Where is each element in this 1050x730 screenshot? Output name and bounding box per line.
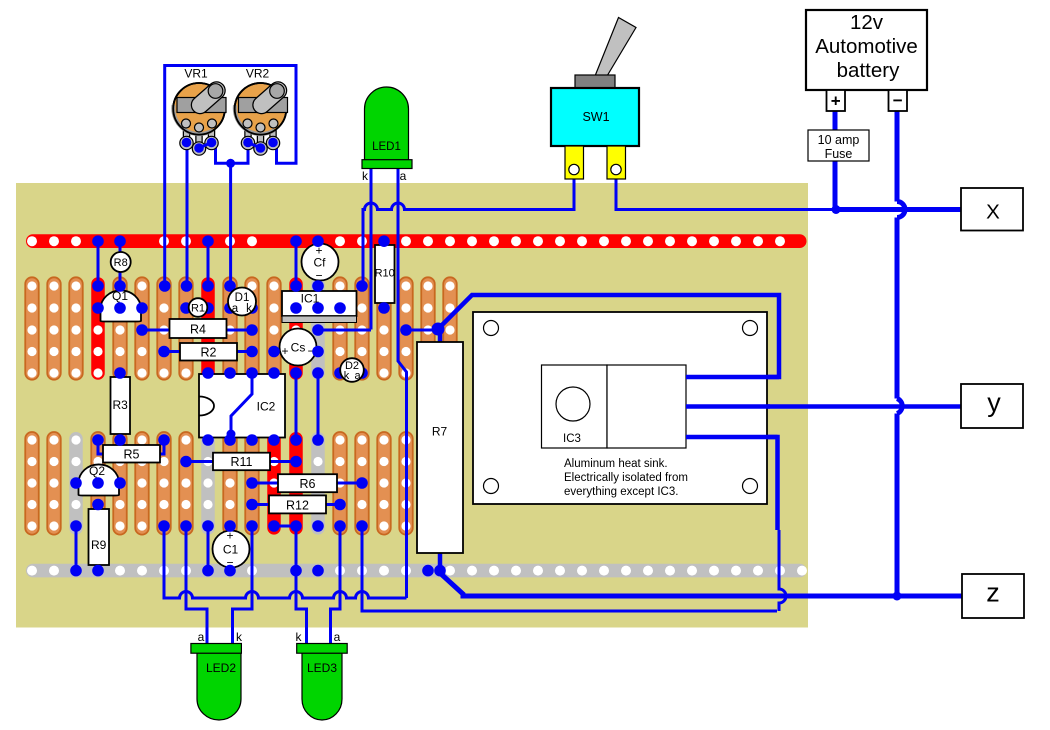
terminal x [961,188,1023,231]
svg-text:LED1: LED1 [372,141,401,153]
wire: node col406 row330 to R7 top junction [406,329,438,332]
LED3 [302,653,342,720]
svg-text:12v: 12v [850,11,884,34]
copper strip col 54 top [47,277,61,379]
svg-text:k: k [246,303,252,315]
hop: minus wire over x wire [897,202,905,218]
diode D2 [340,372,362,375]
copper strip col 296 top [289,277,303,379]
potentiometer VR1 [173,67,226,156]
svg-text:R1: R1 [191,303,205,315]
copper strip col 274 top [267,277,281,379]
bus holes [27,236,807,575]
copper strip col 340 top [333,277,347,379]
svg-text:a: a [354,370,361,382]
wire: LED1 anode leg down to below-board bus [398,168,407,598]
copper strip col 164 top [157,277,171,379]
copper strip col 164 bottom [157,432,171,535]
wire: jumper col 76 row526 to ground bus [75,526,78,571]
transistor Q1 [101,290,142,321]
regulator IC3 [542,365,608,448]
svg-text:Automotive: Automotive [815,35,918,58]
capacitor Cf [302,244,339,281]
resistor R9 [89,509,110,565]
capacitor C1 [213,531,250,568]
wire: R8 link col 120 [119,241,122,286]
svg-text:a: a [232,303,239,315]
resistor R1 body [189,298,208,317]
battery minus terminal [889,90,908,111]
svg-text:R3: R3 [113,398,129,412]
diode D1 body [228,288,256,316]
IC U2 (IC2) [199,374,285,438]
copper strip col 32 top [25,277,39,379]
copper strip col 54 bottom [47,432,61,535]
copper strip col 98 top [91,277,105,379]
svg-text:X: X [986,201,1000,224]
resistor R11 [186,460,213,463]
copper strip col 318 top [311,277,325,379]
junction node minus/z [893,592,902,601]
resistor R4 [142,329,252,332]
svg-text:R8: R8 [114,257,128,269]
heat sink mounting hole top-right [743,321,758,336]
resistor R12 [252,503,269,506]
copper strip col 340 bottom [333,432,347,535]
copper strip col 32 bottom [25,432,39,535]
wire: VR2 wiper tie [248,143,262,149]
wire: jumper col 318 top band to bottom band [317,373,320,440]
svg-text:10 amp: 10 amp [818,133,860,147]
wire: battery plus to fuse [833,111,838,130]
wire: IC3 pin 1 [686,375,779,380]
junction node IC2 internal [227,430,236,439]
potentiometer VR2 [235,67,288,156]
wire: jumper col 296 top band to bottom band [295,373,298,440]
svg-text:R7: R7 [432,425,448,439]
diode D1 [230,307,252,310]
copper strip col 318 bottom [311,432,325,535]
diode D2 body [340,358,364,382]
svg-text:VR2: VR2 [246,67,270,81]
resistor R6 [252,482,278,485]
svg-text:a: a [334,630,341,644]
resistor R10 [375,245,395,303]
copper strip col 384 bottom [377,432,391,535]
resistor R5 [98,440,103,454]
copper strip col 274 bottom [267,432,281,535]
wire: jumper col 230 row526 to ground bus (under C1) [229,526,232,571]
svg-text:SW1: SW1 [582,110,609,124]
svg-text:+: + [831,92,841,111]
svg-text:R9: R9 [91,538,107,552]
wire: LED3 anode from col 340 [331,526,341,645]
fuse [808,130,869,161]
wire: LED2 anode from col 186 [186,526,207,645]
svg-text:R11: R11 [230,455,252,469]
heat sink panel [473,312,767,504]
wire: battery minus down to z [895,111,900,596]
wire: LED2 cathode from col 252 [233,526,253,645]
wire: col 318 row 330 to node by R7 [318,329,371,332]
wire: below-board return bus from col 164 [164,526,407,598]
resistor R7 [417,342,463,553]
svg-text:Q2: Q2 [89,464,105,478]
svg-text:R2: R2 [201,346,217,360]
svg-text:+: + [281,344,288,358]
wire: heatsink loop IC3 pin1 to R7 node [438,295,779,377]
svg-text:z: z [986,578,1000,608]
junction node R7 top [432,323,445,336]
copper strip col 362 bottom [355,432,369,535]
wire: LED1 cathode leg [370,168,373,330]
svg-text:R10: R10 [375,268,395,280]
wire: IC3 pin 2 [686,404,770,409]
copper strip col 76 bottom [69,432,83,535]
wire: IC3 pin3 drop with hop over z wire [779,530,786,611]
svg-text:Aluminum heat sink.: Aluminum heat sink. [564,458,668,470]
wire: VR1 left lug to col 186 [186,145,189,286]
svg-text:Fuse: Fuse [825,147,853,161]
svg-text:k: k [296,630,303,644]
transistor Q2 [79,464,120,495]
svg-text:Electrically isolated from: Electrically isolated from [564,472,688,484]
resistor R3 [111,377,131,434]
svg-text:R12: R12 [286,499,309,513]
wire: fuse to x junction [833,161,838,210]
copper strip col 98 bottom [91,432,105,535]
svg-text:VR1: VR1 [184,67,208,81]
copper strip col 450 top [443,277,457,379]
wire: IC3 pin3 right segment [686,437,778,530]
svg-text:Cs: Cs [291,341,306,355]
copper strip col 406 bottom [399,432,413,535]
capacitor Cs [274,350,318,353]
copper strip col 186 top [179,277,193,379]
svg-text:LED3: LED3 [307,661,337,675]
svg-text:Cf: Cf [314,256,327,270]
copper strip col 208 bottom [201,432,215,535]
wire: col 362 to IC3 pin3 return [362,526,777,611]
resistor R1 [186,307,208,310]
copper strip col 120 top [113,277,127,379]
resistor R2 [164,350,252,353]
svg-text:everything except IC3.: everything except IC3. [564,486,678,498]
svg-text:k: k [362,169,369,183]
svg-text:C1: C1 [223,543,239,557]
heat sink mounting hole bottom-left [484,479,499,494]
wire: row526 link col274-col296 [274,525,296,528]
copper strip col 186 bottom [179,432,193,535]
wire: V+ bus jumper to strip col 208 [207,241,210,286]
battery plus terminal [827,90,846,111]
junction node VR wiper tap [226,159,235,168]
copper strip col 142 top [135,277,149,379]
wire: SW1 right pole to fuse junction [616,171,836,210]
hop: minus wire over y wire [897,399,902,414]
wire: LED3 cathode from ground bus col 296 [296,526,307,645]
wire: R7 top lead [438,329,443,342]
wire: x feed to terminal [836,207,961,212]
copper strip col 252 top [245,277,259,379]
V+ bus strip (red) [26,234,807,248]
copper strip col 76 top [69,277,83,379]
svg-text:IC2: IC2 [257,400,276,414]
battery [806,10,927,90]
SW1 terminal right [607,146,626,179]
junction node fuse/x [832,205,841,214]
svg-text:a: a [198,630,205,644]
svg-text:a: a [400,169,407,183]
heat sink mounting hole top-left [484,321,499,336]
copper strip col 296 bottom [289,432,303,535]
solder joints [70,235,446,576]
ground bus strip (gray) [26,564,807,578]
svg-text:battery: battery [837,59,900,82]
svg-text:y: y [987,388,1001,418]
SW1 terminal left [565,146,584,179]
copper strip col 208 top [201,277,215,379]
svg-text:k: k [236,630,243,644]
wire: SW1 left pole jumper to col 362 [363,171,574,286]
strip holes [27,281,454,530]
svg-text:R5: R5 [124,448,140,462]
copper strip col 142 bottom [135,432,149,535]
terminal z [962,574,1024,618]
wire: V+ bus jumper to strip col 98 [97,241,100,286]
wire: V+ bus jumper to strip col 296 [295,241,298,286]
wire: VR loop (VR2 wiper-right to col 164) [165,66,296,287]
copper strip col 406 top [399,277,413,379]
resistor R8 [111,252,131,272]
copper strip col 384 top [377,277,391,379]
copper strip col 230 bottom [223,432,237,535]
copper strip col 120 bottom [113,432,127,535]
svg-text:−: − [893,91,903,110]
switch SW1 [595,18,636,77]
wire: VR1 wiper tie [201,143,216,149]
svg-text:LED2: LED2 [206,661,236,675]
svg-text:k: k [344,370,350,382]
terminal y [961,384,1023,428]
wire: Cf lead [317,241,320,286]
IC U1 (IC1) [282,291,357,316]
LED2 [197,653,241,720]
copper strip col 428 top [421,277,435,379]
wire: R7 bottom lead to ground bus [438,553,443,571]
wire: IC3 pin 3 [686,435,778,440]
svg-text:IC3: IC3 [563,433,581,445]
wire: jumper col 208 row526 to ground bus [207,526,210,571]
LED1 [365,87,409,160]
copper strip col 362 top [355,277,369,379]
copper strip col 230 top [223,277,237,379]
svg-text:R6: R6 [300,477,316,491]
svg-text:R4: R4 [190,323,206,337]
wire: z run from ground bus junction [440,573,962,596]
copper strip col 252 bottom [245,432,259,535]
wire: VR1 right lug / VR2 left lug join, tap to col 230 [216,145,249,163]
heat sink mounting hole bottom-right [743,479,758,494]
wire: IC3 pin2 to y terminal [686,404,961,409]
